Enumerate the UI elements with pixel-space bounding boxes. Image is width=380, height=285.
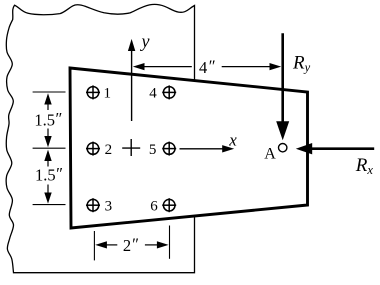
svg-text:1.5″: 1.5″	[34, 109, 62, 130]
point A	[279, 144, 287, 152]
bolt 1	[86, 85, 100, 99]
bolt 5	[162, 142, 176, 156]
dimension 1.5" lower arrow down	[44, 185, 51, 204]
svg-text:2″: 2″	[123, 234, 139, 255]
svg-text:3: 3	[105, 198, 113, 214]
x-axis	[180, 145, 235, 152]
tick row 2	[33, 147, 66, 149]
dimension 2" arrow left	[95, 241, 117, 248]
dimension 1.5" upper arrow down	[44, 129, 51, 148]
svg-text:6: 6	[150, 198, 158, 214]
dimension 4" line left	[133, 63, 192, 70]
wall	[6, 4, 194, 272]
tick row 1	[33, 91, 66, 93]
bolt 2	[86, 142, 100, 156]
svg-text:2: 2	[105, 142, 113, 158]
svg-text:1.5″: 1.5″	[35, 164, 63, 185]
svg-text:5: 5	[149, 142, 157, 158]
tick row 3	[33, 204, 66, 206]
svg-text:y: y	[140, 31, 150, 51]
svg-text:1: 1	[104, 86, 112, 102]
tick 2" right	[169, 226, 171, 259]
tick 2" left	[93, 231, 95, 260]
bolt 3	[86, 198, 100, 212]
origin cross	[122, 139, 140, 156]
svg-text:4: 4	[149, 86, 157, 102]
bolt 6	[162, 198, 176, 212]
dimension 4" line right	[222, 63, 282, 70]
svg-text:A: A	[264, 146, 276, 163]
dimension 1.5" upper arrow up	[44, 93, 51, 110]
force Ry	[276, 33, 289, 140]
y-axis	[128, 39, 135, 121]
dimension 1.5" lower arrow up	[44, 150, 51, 167]
plate	[70, 68, 308, 228]
dimension 2" arrow right	[145, 241, 169, 248]
force Rx	[296, 143, 374, 154]
svg-text:x: x	[228, 130, 237, 149]
bolt 4	[162, 85, 176, 99]
